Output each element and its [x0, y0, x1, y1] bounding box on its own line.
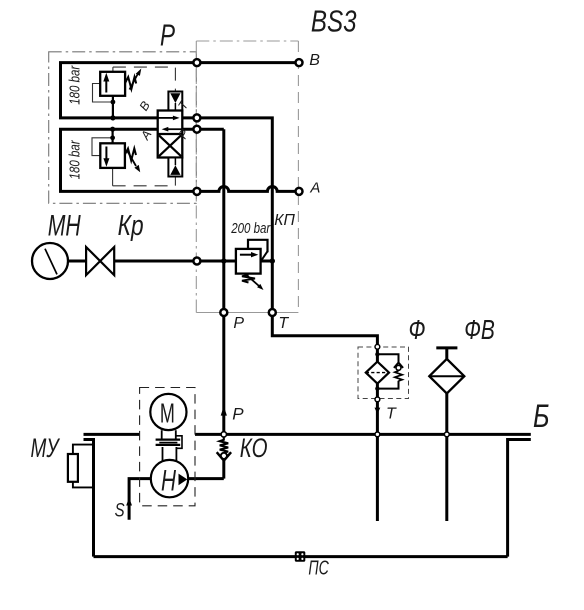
- flow arrow S up: [126, 498, 132, 506]
- svg-text:Р: Р: [160, 18, 175, 53]
- pump H circle: [151, 460, 188, 497]
- wire bottom return line: [94, 555, 508, 558]
- valve RV1 vent stub: [112, 67, 114, 72]
- wire Kr to KP line: [114, 260, 236, 263]
- connector PS body: [295, 551, 306, 562]
- bypass check valve seat: [394, 363, 403, 368]
- node port valve-P: [193, 126, 200, 133]
- gauge MN needle: [45, 249, 57, 275]
- valve RV2 spring: [125, 149, 136, 161]
- valve KP second stage square: [248, 240, 268, 253]
- wire FV stem upper: [445, 348, 448, 359]
- filter F inlet circle: [375, 344, 380, 349]
- bypass spring: [395, 371, 402, 381]
- valve KO spring: [220, 437, 229, 453]
- node port A-side: [193, 188, 200, 195]
- wire tank line left segment: [84, 433, 140, 436]
- filter F diamond: [366, 362, 389, 384]
- wire P line below KO: [222, 461, 225, 479]
- valve KO ball: [221, 453, 227, 459]
- junction dot F bottom: [375, 386, 379, 390]
- wire B line top and frame1: [61, 63, 378, 347]
- svg-text:T: T: [386, 405, 397, 422]
- wire MN to Kr line: [68, 260, 86, 263]
- svg-text:Н: Н: [161, 465, 176, 498]
- valve DV bottom triangle: [170, 165, 180, 175]
- svg-text:ФВ: ФВ: [464, 314, 495, 345]
- flow arrow T down: [375, 408, 381, 414]
- svg-text:P: P: [232, 404, 244, 423]
- valve RV1 flow arrow: [105, 80, 107, 93]
- junction circle F-tank: [375, 432, 380, 437]
- svg-text:КО: КО: [240, 433, 268, 463]
- device MU top stub: [73, 445, 94, 454]
- wire FV vent T-bar: [436, 346, 457, 349]
- bypass check valve ball: [396, 365, 401, 370]
- svg-text:T: T: [278, 315, 289, 332]
- block BS3 thin bottom edge: [196, 312, 298, 314]
- valve DV bottom pilot box: [168, 158, 182, 177]
- valve RV1 output line: [112, 96, 114, 118]
- valve RV2 vent dashed line: [113, 177, 176, 186]
- svg-text:180 bar: 180 bar: [67, 65, 84, 105]
- valve RV1 vent dashed line: [113, 67, 175, 91]
- block BS3 dash-dot left edge: [195, 41, 197, 313]
- node port T bottom: [269, 309, 276, 316]
- pump H triangle: [179, 474, 188, 486]
- svg-text:КП: КП: [274, 212, 295, 229]
- filter FV element line: [429, 375, 464, 377]
- valve RV2 vent stub: [112, 168, 114, 186]
- block BS3 dashed right edge: [297, 41, 299, 313]
- pump unit dashed box: [140, 388, 195, 506]
- valve KP main body: [236, 249, 261, 274]
- valve KP flow arrow: [240, 254, 252, 256]
- valve RV2 output line: [111, 129, 113, 143]
- wire tank line right segment: [195, 433, 531, 436]
- svg-text:М: М: [160, 397, 175, 428]
- valve DV arrows position 1: [159, 117, 175, 119]
- valve RV2 adjust arrow: [127, 151, 136, 167]
- gauge MN circle: [32, 243, 68, 279]
- junction dot KP-P: [221, 258, 226, 263]
- node A: [296, 188, 303, 195]
- valve KP spring: [242, 274, 255, 282]
- junction dot F top: [375, 352, 379, 356]
- valve RV2 flow arrow: [105, 147, 107, 161]
- node B: [296, 59, 303, 66]
- junction dot RV2 pilot: [110, 135, 115, 140]
- node port P bottom: [220, 309, 227, 316]
- valve DV crossed position: [159, 135, 181, 156]
- valve DV top triangle: [170, 93, 180, 103]
- junction dot RV1 pilot: [111, 100, 116, 105]
- svg-text:МН: МН: [48, 210, 81, 243]
- wire tank step left and drop: [84, 440, 94, 557]
- node port Kr-line: [193, 258, 200, 265]
- valve KO seat: [217, 452, 231, 461]
- filter F branch bottom: [377, 381, 398, 389]
- block P dash-dot box: [49, 52, 197, 204]
- svg-text:BS3: BS3: [311, 3, 357, 38]
- junction dot RV2 output: [110, 127, 115, 132]
- junction dot KP-T: [270, 258, 275, 263]
- filter F element dashed: [366, 372, 389, 374]
- junction circle FV-tank: [444, 432, 449, 437]
- wire suction pipe F: [376, 434, 379, 521]
- valve RV1 pilot line: [93, 84, 113, 103]
- svg-text:Ф: Ф: [409, 314, 426, 345]
- block BS3 dash-dot top edge: [196, 40, 298, 42]
- svg-text:Б: Б: [533, 398, 550, 434]
- node port valve-T: [193, 114, 200, 121]
- wire filter F drop upper: [376, 347, 379, 362]
- filter F dashed box: [358, 347, 409, 399]
- valve RV1 body: [100, 72, 125, 96]
- valve KP diagonal link: [261, 251, 268, 261]
- svg-text:ПС: ПС: [308, 558, 329, 580]
- flow arrow P up: [221, 406, 227, 416]
- svg-text:МУ: МУ: [31, 433, 61, 463]
- coupling flange: [156, 439, 181, 441]
- filter FV diamond: [429, 359, 464, 394]
- valve KP adjust arrow: [247, 275, 260, 286]
- valve RV2 pilot line: [92, 138, 113, 156]
- svg-text:200 bar: 200 bar: [230, 220, 271, 237]
- filter F branch top: [377, 354, 398, 363]
- device MU bottom stub: [73, 482, 94, 488]
- motor M circle: [150, 394, 186, 430]
- svg-text:Кр: Кр: [118, 210, 144, 242]
- valve RV1 adjust arrow: [130, 74, 139, 90]
- valve Kr bowtie: [86, 247, 114, 275]
- wire pump suction S: [129, 479, 151, 520]
- valve RV1 spring: [125, 77, 136, 89]
- wire suction pipe FV: [445, 434, 448, 521]
- device MU rectangle: [68, 454, 78, 482]
- valve RV2 body: [100, 143, 125, 168]
- wire P line vertical: [222, 129, 225, 436]
- wire FV stem lower: [445, 394, 448, 435]
- junction dot RV1 output: [110, 115, 115, 120]
- node port B-side top: [193, 59, 200, 66]
- valve DV top pilot box: [168, 92, 182, 111]
- filter F outlet circle: [375, 397, 380, 402]
- coupling shaft lower: [163, 447, 177, 461]
- svg-text:P: P: [233, 315, 244, 332]
- svg-text:S: S: [115, 500, 125, 521]
- coupling shaft upper: [162, 430, 176, 439]
- wire frame2 top, left edge and A line with hops: [61, 129, 300, 191]
- junction circle P-tank: [221, 432, 226, 437]
- wire KP to T line: [261, 260, 273, 263]
- coupling bracket: [176, 436, 182, 449]
- svg-text:B: B: [137, 99, 153, 113]
- valve DV body: [158, 111, 183, 158]
- wire filter F drop lower: [376, 384, 379, 435]
- wire pump outlet: [188, 477, 224, 480]
- wire tank step right (B) and drop: [508, 440, 531, 557]
- svg-text:A: A: [309, 180, 320, 197]
- svg-text:B: B: [309, 52, 320, 69]
- svg-text:180 bar: 180 bar: [67, 140, 84, 180]
